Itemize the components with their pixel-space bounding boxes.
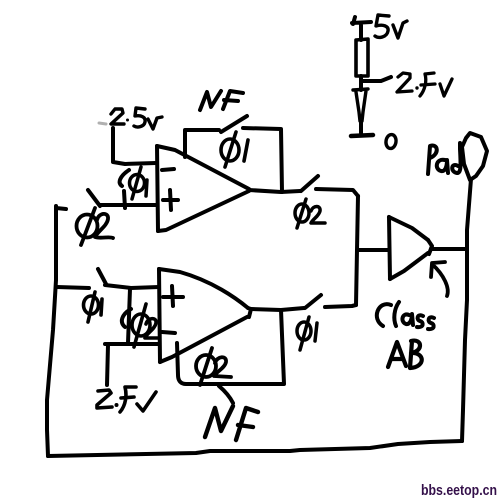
wire phi1 row from bus — [57, 287, 89, 288]
label phi2 (A1 out) — [295, 199, 325, 228]
wire switch to A2 + input — [105, 285, 159, 288]
label phi2 (A2 input) — [132, 304, 158, 347]
A2 plus sign — [163, 286, 183, 306]
switch S7 phi1 (A2 out) — [305, 295, 321, 308]
label AB — [388, 341, 422, 368]
label phi2 (A2 feedback) — [196, 348, 231, 385]
resistor R1 — [356, 39, 368, 76]
wire left bus — [47, 206, 56, 456]
wire pad to output net — [467, 179, 471, 250]
A1 minus sign — [162, 169, 174, 170]
switch S1 phi2 (to A1 +) — [88, 190, 100, 206]
wire to merge node bottom — [325, 305, 356, 307]
ground bar 0 — [351, 135, 373, 136]
feedback wire A2 (NF) — [177, 310, 284, 384]
feedback wire A1 right — [243, 128, 282, 192]
faint mark — [99, 123, 106, 124]
bond pad — [462, 133, 487, 180]
switch S4 phi1 (A1 feedback) — [221, 116, 247, 132]
label Class — [377, 302, 434, 329]
svg-text:bbs.eetop.cn: bbs.eetop.cn — [421, 482, 497, 499]
wire R2 to ground — [359, 119, 363, 135]
label 2.5V (bottom left) — [97, 387, 156, 412]
wire to merge node — [316, 189, 358, 196]
wire phi2 row from bus — [56, 208, 66, 209]
wire merge node vertical — [356, 196, 358, 305]
wire merge to buffer input — [357, 248, 389, 252]
A2 minus sign — [162, 332, 175, 333]
label 2.5V (top left) — [111, 108, 162, 129]
supply rail top bar 5V — [352, 17, 371, 40]
label Pad — [428, 143, 461, 174]
wire R1 to tap — [359, 76, 363, 90]
NF pointer tail — [219, 386, 233, 403]
node 2.5V tap wire — [361, 77, 391, 81]
label NF (top) — [200, 91, 243, 110]
label phi1 (A2 out) — [297, 317, 317, 350]
wire bottom return — [48, 441, 462, 456]
label phi1 (left bottom row) — [84, 292, 103, 322]
label 2.5V (rail tap) — [397, 73, 452, 96]
wire 2.5V to A2 - — [107, 345, 108, 385]
wire output net down right side — [462, 250, 467, 441]
wire switch to A1 + input — [100, 203, 156, 207]
label phi2 (big, left) — [77, 208, 114, 245]
switch S5 phi2 (A1 out) — [301, 176, 318, 191]
feedback wire A1 (NF) — [185, 130, 219, 157]
label phi1 (A1 input) — [130, 167, 148, 199]
switch S2 phi1 (to A2 +) — [98, 269, 106, 284]
wire A2 - input — [105, 342, 159, 346]
wire 2.5V to A1 - input — [113, 128, 156, 164]
wire A1 output — [249, 190, 300, 192]
switch S3 phi1 (A1 - sampling) — [120, 170, 129, 208]
wire buffer output to pad net — [431, 247, 467, 251]
A1 plus sign — [163, 190, 178, 210]
label NF (bottom) — [205, 406, 258, 440]
buffer U1 Class AB — [389, 217, 432, 279]
label 0 — [385, 134, 397, 149]
switch S6 phi2 (A2 - sampling) — [122, 289, 131, 343]
wire A2 output — [251, 308, 304, 310]
annotation arrow to U1 — [431, 262, 448, 296]
label phi1 (A1 feedback) — [221, 132, 248, 167]
resistor R2 — [353, 89, 368, 121]
op-amp A2 — [159, 269, 251, 362]
op-amp A1 — [157, 146, 249, 231]
label 5V — [375, 15, 407, 38]
